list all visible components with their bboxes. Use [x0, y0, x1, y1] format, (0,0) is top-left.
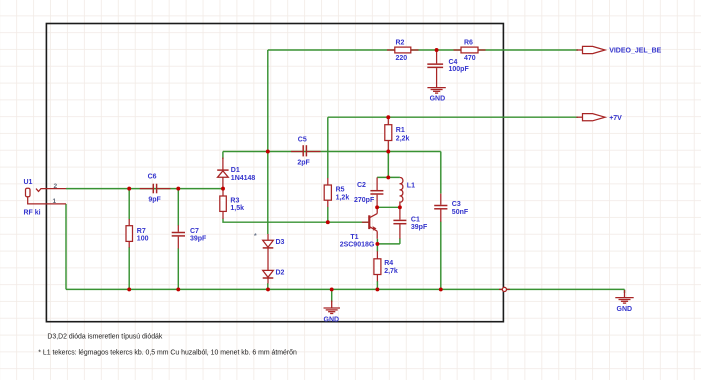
- node C4 top: [435, 48, 439, 52]
- svg-text:RF ki: RF ki: [24, 209, 41, 216]
- node D1/R3: [221, 187, 225, 191]
- svg-text:2: 2: [54, 183, 58, 190]
- node C3 bottom: [439, 287, 443, 291]
- svg-text:C7: C7: [190, 228, 199, 235]
- svg-text:R2: R2: [396, 39, 405, 46]
- svg-text:*: *: [254, 232, 257, 241]
- wire R4 bottom: [376, 281, 378, 289]
- wire R7 branch bottom: [128, 247, 130, 289]
- wire mid net with C5: [223, 151, 441, 153]
- svg-text:C4: C4: [449, 59, 458, 66]
- capacitor C5: [291, 145, 321, 156]
- node tank top: [386, 175, 390, 179]
- svg-text:50nF: 50nF: [452, 209, 469, 216]
- svg-text:9pF: 9pF: [148, 197, 161, 204]
- svg-text:470: 470: [464, 55, 476, 62]
- svg-text:GND: GND: [324, 316, 340, 323]
- node R4 bottom: [375, 287, 379, 291]
- node C6/C7: [176, 187, 180, 191]
- node emitter: [375, 242, 379, 246]
- svg-text:100pF: 100pF: [449, 66, 470, 73]
- wire R7 branch top: [128, 189, 130, 220]
- svg-text:R4: R4: [384, 260, 393, 267]
- svg-text:T1: T1: [350, 234, 358, 241]
- svg-text:1,5k: 1,5k: [230, 205, 244, 212]
- wire emitter node: [377, 243, 400, 245]
- svg-text:C3: C3: [452, 201, 461, 208]
- svg-text:1: 1: [53, 198, 57, 205]
- svg-text:VIDEO_JEL_BE: VIDEO_JEL_BE: [609, 48, 661, 55]
- ground symbol under C4: [427, 88, 445, 94]
- wire C3 branch lower: [440, 222, 442, 290]
- node C7 bottom: [176, 287, 180, 291]
- svg-text:R6: R6: [464, 39, 473, 46]
- diode D3: [263, 234, 274, 270]
- capacitor C1: [393, 207, 406, 238]
- ground symbol middle: [324, 301, 341, 314]
- wire emitter to R4: [376, 239, 378, 252]
- svg-text:2,2k: 2,2k: [396, 135, 410, 142]
- capacitor C6: [140, 184, 171, 194]
- wire D1/R3 vertical: [222, 152, 224, 160]
- svg-text:220: 220: [396, 55, 408, 62]
- capacitor C4: [427, 50, 443, 87]
- svg-text:39pF: 39pF: [190, 236, 207, 243]
- svg-text:* L1 tekercs: légmagos tekercs: * L1 tekercs: légmagos tekercs kb. 0,5 m…: [38, 349, 297, 356]
- svg-text:C5: C5: [298, 136, 307, 143]
- node top net / diode chain: [266, 150, 270, 154]
- wire GND stub middle: [331, 289, 333, 302]
- node R7 bottom: [127, 287, 131, 291]
- flag +7V: [576, 114, 605, 121]
- diode D2: [263, 270, 274, 283]
- svg-text:1N4148: 1N4148: [231, 175, 256, 182]
- resistor R2: [387, 47, 419, 53]
- connector U1: [26, 188, 67, 204]
- wire C7 branch top: [177, 189, 179, 226]
- wire ground rail bottom: [66, 288, 625, 290]
- svg-text:270pF: 270pF: [354, 197, 375, 204]
- svg-text:R3: R3: [230, 197, 239, 204]
- capacitor C7: [172, 225, 185, 248]
- node L1/C1: [398, 205, 402, 209]
- wire C1 branch: [399, 238, 401, 244]
- transistor T1: [362, 207, 377, 239]
- wire net RF input: U1 pin2 to D1/R3 node: [66, 188, 223, 190]
- wire R5 branch upper: [327, 117, 329, 178]
- node collector: [375, 205, 379, 209]
- flag VIDEO_JEL_BE: [576, 46, 605, 53]
- svg-text:39pF: 39pF: [411, 224, 428, 231]
- svg-text:R1: R1: [396, 127, 405, 134]
- node D2 bottom: [266, 287, 270, 291]
- node R1 bottom: [386, 150, 390, 154]
- wire C3 branch upper: [440, 152, 442, 194]
- frame border: [46, 24, 503, 322]
- node R5 bottom: [326, 220, 330, 224]
- svg-text:100: 100: [137, 236, 149, 243]
- svg-text:U1: U1: [24, 179, 33, 186]
- svg-text:L1: L1: [407, 182, 415, 189]
- inductor L1: [400, 177, 403, 207]
- capacitor C3: [434, 194, 447, 222]
- wire GND stub right: [624, 289, 626, 293]
- resistor R6: [454, 47, 486, 53]
- svg-text:D3,D2 dióda ismeretlen típusú: D3,D2 dióda ismeretlen típusú diódák: [47, 334, 162, 341]
- frame crossing circle: [499, 287, 510, 291]
- wire R1 branch: [387, 152, 389, 178]
- wire R5 branch lower: [327, 207, 329, 222]
- resistor R5: [324, 178, 331, 207]
- svg-text:+7V: +7V: [609, 115, 622, 122]
- wire R3 bottom to base of T1: [223, 219, 368, 223]
- wire top net to video out: [268, 49, 578, 51]
- svg-text:R7: R7: [137, 228, 146, 235]
- wire vertical from top net down to diode chain: [267, 50, 269, 234]
- ground symbol right: [615, 290, 633, 303]
- svg-text:C1: C1: [411, 217, 420, 224]
- resistor R3: [220, 189, 227, 219]
- svg-text:D3: D3: [276, 239, 285, 246]
- svg-text:D2: D2: [276, 270, 285, 277]
- svg-text:D1: D1: [231, 167, 240, 174]
- svg-text:2,7k: 2,7k: [384, 268, 398, 275]
- resistor R7: [126, 219, 133, 248]
- resistor R1: [385, 117, 392, 151]
- wire U1 pin1 down to ground rail: [65, 204, 67, 290]
- node C6/R7: [127, 187, 131, 191]
- svg-text:GND: GND: [617, 306, 633, 313]
- diode D1: [217, 158, 228, 189]
- svg-text:2SC9018G: 2SC9018G: [340, 242, 375, 249]
- svg-text:C2: C2: [357, 182, 366, 189]
- wire C7 branch bottom: [177, 248, 179, 289]
- capacitor C2: [370, 177, 383, 207]
- resistor R4: [374, 251, 381, 281]
- node GND middle: [330, 287, 334, 291]
- wire +7V rail: [328, 116, 578, 118]
- svg-text:R5: R5: [336, 186, 345, 193]
- wire diode chain bottom to ground rail: [267, 283, 269, 289]
- svg-text:2pF: 2pF: [297, 160, 310, 167]
- node R1 top: [386, 115, 390, 119]
- svg-text:C6: C6: [148, 174, 157, 181]
- svg-text:GND: GND: [430, 95, 446, 102]
- wire tank top: [377, 176, 400, 178]
- wire tank bottom to collector: [377, 206, 400, 208]
- svg-text:1,2k: 1,2k: [336, 194, 350, 201]
